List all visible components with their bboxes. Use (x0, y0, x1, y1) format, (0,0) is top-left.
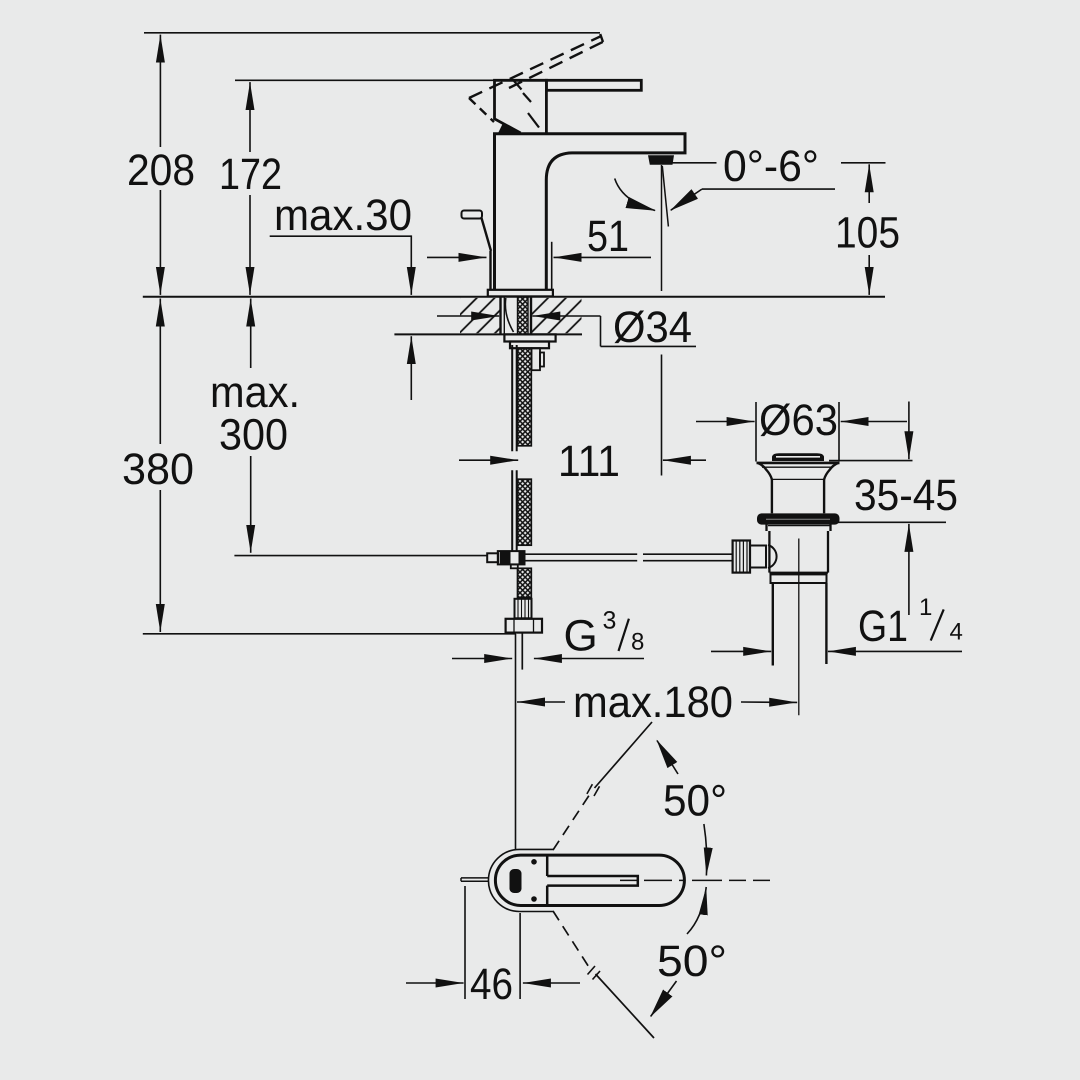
svg-text:380: 380 (122, 445, 194, 494)
lever cartridge dark wedge (498, 123, 522, 133)
swivel ray upper dashed (553, 722, 652, 850)
dimension diameter 63 (696, 402, 907, 462)
horizontal pull rod to drain (525, 554, 734, 561)
countertop top line (143, 296, 885, 298)
svg-text:max.30: max.30 (274, 191, 412, 240)
break mark lower (588, 966, 601, 980)
drain tail pipe (773, 583, 827, 666)
leader 50 degrees upper (657, 741, 707, 876)
G3/8 tail pipe (521, 633, 523, 670)
raised lever hidden edge dashes (514, 81, 539, 128)
top view screw dots (531, 859, 537, 902)
water stream tilted (662, 166, 668, 227)
countertop bottom line (394, 333, 582, 335)
svg-text:300: 300 (219, 411, 288, 460)
label max.180 (573, 678, 733, 727)
pop-up rod knob (462, 211, 492, 290)
break mark upper (587, 784, 600, 796)
top view cartridge blob (510, 869, 522, 893)
dimension 111 (459, 355, 706, 476)
counter hatching left (460, 298, 501, 333)
svg-text:51: 51 (587, 212, 629, 261)
svg-text:4: 4 (950, 619, 963, 646)
pop-up rod along hose (512, 345, 517, 551)
dimension G1 1/4 (711, 650, 962, 652)
drain plug cap (772, 453, 824, 461)
svg-text:max.180: max.180 (573, 678, 733, 727)
counter hatching right (531, 298, 582, 333)
rod junction block (487, 551, 524, 568)
extension line 380 bottom (143, 633, 516, 635)
svg-text:G1: G1 (858, 602, 908, 651)
svg-text:50°: 50° (657, 937, 727, 986)
label 172 (219, 150, 282, 199)
drain centerline (798, 539, 800, 716)
label 51 (587, 212, 629, 261)
svg-text:3: 3 (603, 607, 617, 635)
svg-text:172: 172 (219, 150, 282, 199)
drain flange top (757, 462, 840, 465)
top view outer escutcheon (488, 849, 553, 911)
label 46 (470, 960, 513, 1009)
shank braid section (518, 297, 529, 335)
top view lever slot (547, 855, 638, 905)
label max.30 (274, 191, 412, 240)
extension line pull rod level (234, 555, 487, 557)
dimension max.180 (516, 634, 798, 849)
dimension 46 (406, 886, 580, 999)
supply hose braid middle (518, 479, 532, 545)
drain knurled knob (733, 541, 750, 573)
label G3/8 (564, 607, 645, 661)
backnut (504, 334, 555, 348)
drain seal ring (757, 513, 840, 524)
label 300 (219, 411, 288, 460)
top view pull rod stub (461, 878, 489, 881)
svg-text:46: 46 (470, 960, 513, 1009)
label 380 (122, 445, 194, 494)
hose end fitting (515, 599, 532, 619)
dimension 380 (159, 299, 161, 633)
dimension 105 (868, 164, 870, 295)
water stream vertical (661, 165, 663, 291)
svg-text:208: 208 (127, 146, 195, 195)
label 105 (835, 209, 900, 258)
label 111 (558, 437, 620, 486)
swivel ray lower dashed (553, 911, 654, 1038)
svg-text:8: 8 (631, 629, 644, 656)
leader 50 degrees lower (651, 887, 707, 1016)
svg-text:G: G (564, 612, 598, 661)
dimension 51 (427, 242, 651, 291)
svg-text:1: 1 (919, 594, 932, 621)
lever body (495, 80, 547, 134)
mounting stud and nut (532, 348, 545, 370)
dimension 208 (159, 35, 161, 295)
label 35-45 (854, 471, 958, 520)
drain body (767, 525, 832, 573)
drain flange (758, 463, 838, 479)
leader max.30 (270, 235, 412, 295)
label 0-6 degrees (723, 142, 819, 191)
svg-text:0°-6°: 0°-6° (723, 142, 819, 191)
svg-text:Ø63: Ø63 (759, 396, 838, 445)
dimension 172 (249, 82, 251, 295)
drain knob connector (750, 545, 777, 568)
top view centerline (620, 879, 770, 881)
arrow counter thickness (410, 336, 412, 400)
label G1 1/4 (858, 594, 963, 651)
lever bar (546, 80, 641, 90)
top view handle capsule (495, 855, 684, 905)
drain barrel (772, 479, 824, 513)
svg-text:35-45: 35-45 (854, 471, 958, 520)
label max. (210, 368, 300, 417)
supply hose braid lower (518, 568, 532, 597)
label diameter 34 (613, 303, 692, 352)
label 208 (127, 146, 195, 195)
label diameter 63 (759, 396, 838, 445)
dimension G3/8 (452, 658, 644, 660)
supply hose braid upper (518, 348, 532, 446)
dimension diameter 34 (437, 316, 696, 346)
leader 0-6 degrees (615, 163, 886, 211)
extension line top (tip of raised lever level) (144, 32, 600, 34)
raised lever dashed outline (469, 37, 603, 123)
extension line handle top level (235, 79, 495, 81)
label 50 degrees lower (657, 937, 727, 986)
dimension 35-45 (829, 402, 946, 616)
aerator (648, 155, 674, 165)
svg-text:Ø34: Ø34 (613, 303, 692, 352)
svg-text:111: 111 (558, 437, 620, 486)
drain body groove (771, 574, 827, 583)
svg-text:105: 105 (835, 209, 900, 258)
label 50 degrees upper (663, 777, 727, 826)
mounting shank in hole (501, 297, 532, 335)
G3/8 nut (506, 619, 542, 633)
faucet base plate (488, 290, 553, 297)
faucet body outline (495, 134, 686, 290)
svg-text:50°: 50° (663, 777, 727, 826)
raised lever tip edge (600, 34, 603, 42)
dimension max.300 (250, 299, 252, 553)
